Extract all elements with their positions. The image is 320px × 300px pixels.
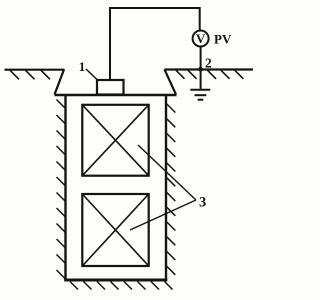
wire from box 1 up and across to voltmeter [110,8,200,80]
ground symbol (auxiliary earth electrode) [190,90,210,100]
ground plate 3b X brace [82,194,148,266]
ground plate 3a (upper) [82,105,148,176]
leader line for label 3 lower [130,200,196,230]
floor hatching [70,282,173,290]
leader line for label 1 [86,69,98,80]
ground surface line right [165,68,254,70]
earth hatching right of pit [176,70,243,79]
earth hatching left of pit [10,70,50,79]
svg-text:1: 1 [79,59,86,74]
pit mouth slope right [165,70,177,95]
wall hatching right [167,104,176,275]
ground plate 3a X brace [82,105,148,176]
svg-text:3: 3 [199,195,206,211]
svg-text:2: 2 [205,56,212,71]
pit left wall [64,95,66,280]
ground plate 3b (lower) [82,194,148,266]
test box 1 on ledge [97,80,124,95]
leader line for label 3 upper [138,145,196,200]
svg-text:PV: PV [214,32,232,47]
wall hatching left [57,100,66,279]
voltmeter PV circle [193,31,209,47]
pit ledge line [55,94,177,97]
pit right wall [165,95,167,280]
junction node 2 [198,67,203,72]
ground surface line left [5,69,65,71]
pit floor [64,279,167,282]
wire from voltmeter down to earth [200,47,202,89]
pit mouth slope left [55,70,65,95]
svg-text:V: V [196,31,206,46]
